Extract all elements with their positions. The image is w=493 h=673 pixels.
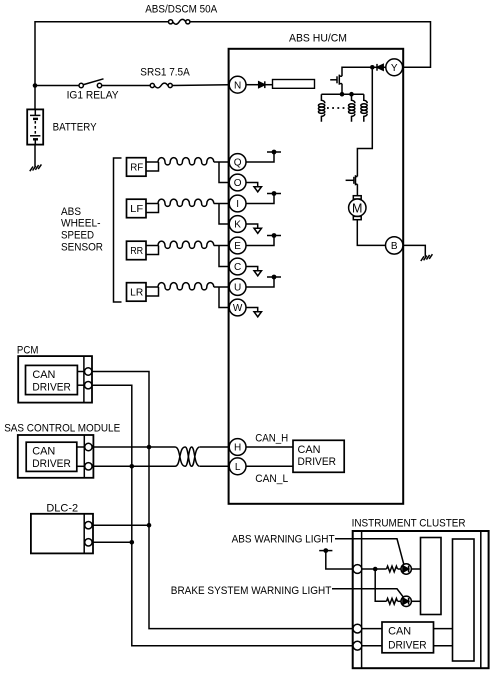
wire DLC L: [92, 541, 132, 543]
dotted line between coils: [327, 107, 348, 109]
wire SAS L: [92, 465, 175, 467]
terminal B: [386, 237, 403, 254]
node DLC H junction: [147, 523, 152, 528]
terminal E: [229, 237, 246, 254]
wire E to power stub: [246, 236, 274, 246]
wire RF bottom step: [146, 162, 159, 171]
node coil2: [349, 92, 354, 97]
pin PCM CAN-L: [85, 382, 92, 389]
pin SAS CAN-H: [85, 443, 92, 450]
ground arrow K: [246, 224, 262, 233]
svg-text:SPEED: SPEED: [61, 230, 94, 242]
wire Q1 drain up: [342, 67, 372, 76]
terminal H: [229, 439, 246, 456]
svg-text:H: H: [234, 443, 241, 454]
wire LF top: [146, 203, 158, 205]
svg-text:Q: Q: [234, 158, 242, 169]
twisted pair RR: [158, 241, 214, 248]
cluster CAN DRIVER: [382, 622, 434, 653]
diode D1: [259, 81, 265, 88]
svg-text:CAN_L: CAN_L: [255, 473, 288, 485]
wire N to diode: [246, 84, 259, 86]
terminal C: [229, 258, 246, 275]
wire LR top: [146, 286, 158, 288]
svg-text:WHEEL-: WHEEL-: [61, 218, 101, 230]
twisted pair LF: [158, 199, 214, 206]
svg-text:LF: LF: [130, 204, 143, 215]
wire RF to Q: [214, 161, 230, 163]
node SAS H junction: [147, 445, 152, 450]
wire LF to K: [219, 204, 229, 225]
svg-text:SENSOR: SENSOR: [61, 242, 103, 254]
svg-text:ABS HU/CM: ABS HU/CM: [289, 33, 347, 45]
fuse SRS1 7.5A: [150, 83, 172, 88]
svg-text:BRAKE SYSTEM WARNING LIGHT: BRAKE SYSTEM WARNING LIGHT: [171, 585, 332, 597]
wire RR top: [146, 245, 158, 247]
power stub Q: [267, 150, 281, 155]
power stub U: [267, 275, 281, 280]
pin DLC-2 CAN-H: [85, 522, 92, 529]
relay IG1 (switch): [79, 79, 104, 88]
svg-text:RF: RF: [130, 163, 143, 174]
node DLC L junction: [130, 540, 135, 545]
ground arrow W: [246, 308, 262, 317]
solenoid coil L1: [318, 94, 324, 122]
wire top to Y: [190, 22, 431, 68]
wire motor to B: [357, 220, 386, 246]
wire LR to U: [214, 286, 230, 288]
wire cluster L: [362, 645, 382, 647]
svg-text:SAS CONTROL MODULE: SAS CONTROL MODULE: [4, 422, 120, 434]
svg-text:DRIVER: DRIVER: [388, 639, 427, 651]
node battery junction: [33, 83, 38, 88]
wire lamp junction down: [375, 569, 386, 601]
wire cluster H: [362, 628, 382, 630]
twisted pair LR: [158, 283, 214, 290]
ground battery: [30, 164, 42, 171]
wire SAS CAN driver to pin H: [77, 446, 85, 448]
wire lamp feed: [362, 568, 387, 570]
wire resistor to lamp1: [398, 568, 401, 570]
wire H to ABS CAN driver: [246, 446, 293, 448]
wire LR bottom step: [146, 287, 159, 296]
bracket wheel speed sensors: [114, 158, 122, 302]
sensor RF: [127, 158, 147, 177]
twisted pair CAN: [175, 447, 200, 466]
pin cluster CAN-H: [353, 624, 362, 633]
svg-text:CAN: CAN: [32, 369, 55, 381]
svg-text:K: K: [234, 220, 241, 231]
node SAS L junction: [130, 464, 135, 469]
battery: [27, 109, 43, 145]
wire twist to H: [200, 446, 229, 448]
node Q1 source: [340, 92, 345, 97]
pin DLC-2 CAN-L: [85, 539, 92, 546]
pin SAS CAN-L: [85, 463, 92, 470]
wire solenoid rail: [321, 93, 363, 95]
terminal I: [229, 195, 246, 212]
SAS CAN DRIVER: [26, 442, 77, 471]
wire SAS H: [92, 446, 175, 448]
svg-text:SRS1 7.5A: SRS1 7.5A: [140, 67, 190, 79]
terminal K: [229, 216, 246, 233]
wire LR to W: [219, 287, 229, 308]
wire Q2 source to motor: [356, 184, 358, 196]
wire fuse to terminal N: [172, 84, 229, 87]
wire PCM H to bus: [92, 372, 353, 629]
wire battery feed top: [35, 22, 169, 86]
gauge block: [421, 538, 442, 615]
svg-text:CAN: CAN: [32, 446, 55, 458]
lamp brake warning: [401, 596, 411, 606]
solenoid coil L2: [349, 94, 355, 122]
PCM CAN DRIVER: [26, 365, 78, 394]
wire LF bottom step: [146, 204, 159, 213]
wire LF to I: [214, 203, 230, 205]
sensor LF: [127, 199, 147, 218]
PCM box: [18, 356, 92, 403]
svg-text:CAN: CAN: [298, 444, 321, 456]
motor M (pump): [349, 196, 366, 220]
ABS CAN DRIVER: [293, 440, 344, 472]
wire U to power stub: [246, 277, 274, 287]
transistor Q1 (solenoid driver FET): [330, 75, 342, 85]
svg-text:BATTERY: BATTERY: [53, 122, 98, 134]
wire RR to C: [219, 246, 229, 267]
wire CAN driver to display L: [434, 645, 453, 647]
svg-text:C: C: [234, 262, 241, 273]
wire relay to fuse SRS1: [102, 85, 151, 87]
svg-text:Y: Y: [391, 63, 398, 74]
svg-text:I: I: [236, 199, 239, 210]
wire Q1 source down: [341, 84, 343, 95]
resistor R2: [387, 598, 398, 604]
terminal Y: [386, 59, 403, 76]
transistor Q2 (pump motor FET): [346, 175, 358, 185]
svg-text:L: L: [235, 462, 241, 473]
terminal Q: [229, 154, 246, 171]
wire lamp1 to gauge: [411, 568, 420, 570]
sensor LR: [127, 283, 147, 302]
leader ABS warning light: [335, 539, 404, 564]
resistor R1: [387, 566, 398, 572]
wire twist to L: [200, 465, 229, 467]
svg-text:E: E: [234, 241, 241, 252]
wire CAN driver to display H: [434, 628, 453, 630]
svg-text:LR: LR: [130, 288, 143, 299]
power stub E: [267, 233, 281, 238]
svg-text:INSTRUMENT CLUSTER: INSTRUMENT CLUSTER: [352, 518, 466, 530]
fuse ABS/DSCM 50A: [169, 19, 190, 24]
leader brake warning light: [332, 589, 403, 597]
wire RR to E: [214, 245, 230, 247]
svg-text:DRIVER: DRIVER: [32, 458, 71, 470]
ground arrow O: [246, 183, 262, 192]
wire RR bottom step: [146, 246, 159, 255]
svg-text:DRIVER: DRIVER: [32, 381, 71, 393]
svg-text:O: O: [234, 178, 242, 189]
wire resistor to lamp2: [398, 600, 401, 602]
svg-text:DRIVER: DRIVER: [298, 456, 337, 468]
node diode Y junction: [370, 65, 375, 70]
svg-text:ABS WARNING LIGHT: ABS WARNING LIGHT: [232, 534, 335, 546]
wire B to ground: [403, 245, 425, 256]
solenoid coil L3: [361, 94, 367, 122]
svg-text:W: W: [233, 303, 243, 314]
ground arrow C: [246, 267, 262, 276]
wire battery to ground: [34, 144, 36, 167]
wire diode to resistor block: [265, 84, 272, 86]
wire L to ABS CAN driver: [246, 465, 293, 467]
display block: [453, 539, 475, 661]
wire Y junction down to motor FET: [357, 67, 372, 176]
power stub I: [267, 191, 281, 196]
lamp ABS warning: [401, 564, 411, 574]
wire SAS CAN driver to pin L: [77, 465, 85, 467]
pin cluster CAN-L: [353, 641, 362, 650]
pin cluster lamp feed: [353, 565, 362, 574]
sensor RR: [127, 241, 147, 260]
wire battery junction down: [34, 86, 36, 110]
DLC-2 box: [31, 514, 93, 554]
diode D2 (to Y): [372, 64, 386, 71]
svg-text:M: M: [352, 201, 362, 215]
terminal W: [229, 299, 246, 316]
wire RF to O: [219, 162, 229, 183]
instrument cluster box: [353, 531, 489, 668]
ABS HU/CM box: [229, 49, 404, 504]
resistor block: [273, 80, 315, 89]
wire RF top: [146, 161, 158, 163]
svg-text:CAN: CAN: [388, 626, 411, 638]
svg-text:B: B: [391, 241, 398, 252]
wire lamp2 to gauge: [411, 600, 420, 602]
terminal N: [229, 76, 246, 93]
ground B: [421, 254, 433, 261]
wire PCM L to bus: [92, 385, 353, 646]
terminal U: [229, 279, 246, 296]
node lamp junction: [373, 567, 378, 572]
pin PCM CAN-H: [85, 368, 92, 375]
wire junction to IG1 relay: [35, 85, 79, 87]
wire PCM CAN driver to pin H: [77, 371, 84, 373]
wire PCM CAN driver to pin L: [77, 384, 84, 386]
SAS box: [18, 435, 94, 478]
wire Q to power stub: [246, 152, 274, 162]
svg-text:DLC-2: DLC-2: [46, 502, 78, 514]
svg-text:PCM: PCM: [17, 345, 39, 357]
terminal L: [229, 458, 246, 475]
wire DLC H: [92, 524, 149, 526]
svg-text:CAN_H: CAN_H: [255, 432, 288, 444]
svg-text:ABS/DSCM 50A: ABS/DSCM 50A: [145, 4, 218, 16]
svg-text:U: U: [234, 283, 241, 294]
svg-text:N: N: [234, 80, 241, 91]
svg-text:RR: RR: [130, 246, 143, 257]
label ABS WHEEL-SPEED SENSOR: [61, 206, 103, 254]
power stub lamp: [319, 548, 353, 569]
wire I to power stub: [246, 194, 274, 204]
svg-text:IG1 RELAY: IG1 RELAY: [67, 90, 120, 102]
twisted pair RF: [158, 158, 214, 165]
terminal O: [229, 174, 246, 191]
svg-text:ABS: ABS: [61, 206, 81, 218]
